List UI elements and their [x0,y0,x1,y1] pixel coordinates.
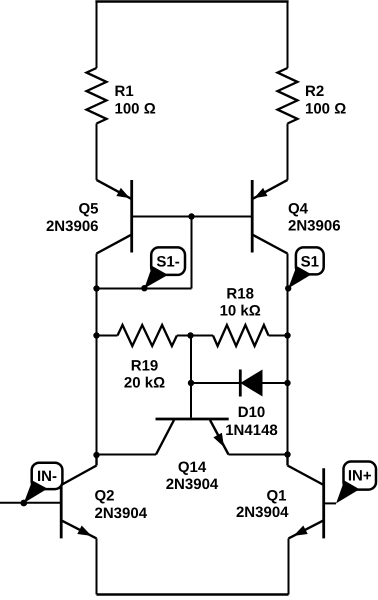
svg-text:S1-: S1- [156,253,179,270]
wire Q14 emitter to right column [229,454,288,456]
wire middle column resistor row to diode row [190,336,192,384]
svg-text:Q1: Q1 [266,487,286,504]
svg-text:2N3906: 2N3906 [46,218,99,235]
junction middle column at diode row [188,380,194,386]
svg-text:R2: R2 [305,83,324,100]
wire R2 top lead [287,1,289,69]
label Q1 [236,487,289,520]
svg-text:S1: S1 [301,253,319,270]
node S1- callout [141,247,185,291]
junction left column at resistor row [93,332,99,338]
junction right column at diode row [284,380,290,386]
label R18 value [220,286,261,320]
junction base node [188,213,194,219]
wire Q4 collector down right column [287,254,289,455]
diode D10 [191,370,288,397]
svg-text:Q5: Q5 [78,201,98,218]
node IN+ callout [336,462,376,504]
svg-text:R19: R19 [131,358,159,375]
junction right column at collector rail [284,451,290,457]
transistor Q2 [61,455,96,538]
junction IN- dot [20,500,27,507]
wire Q1 base stub [324,502,336,504]
wire top rail [95,0,288,3]
wire Q14 collector to left column [97,454,157,456]
svg-text:2N3906: 2N3906 [288,218,341,235]
svg-text:IN+: IN+ [348,468,372,485]
svg-text:IN-: IN- [37,468,57,485]
wire diode row to Q14 base [190,383,192,418]
wire IN- base wire [0,502,61,504]
resistor R19 [97,325,191,346]
svg-text:2N3904: 2N3904 [236,504,289,521]
resistor R18 [191,325,288,346]
label D10 value [225,404,278,439]
wire R2 bottom to Q4 emitter [287,124,289,180]
svg-text:D10: D10 [238,404,266,421]
svg-text:10 kΩ: 10 kΩ [220,302,261,319]
label Q14 [166,459,219,493]
node S1 callout [285,247,324,291]
resistor R2 [278,68,298,124]
transistor Q5 [97,180,132,254]
transistor Q1 [288,455,324,539]
wire Q5 base to Q4 base [132,216,253,218]
svg-text:Q2: Q2 [95,487,115,504]
junction left column at collector rail [93,452,99,458]
wire base node down to S1- row [191,217,193,289]
svg-text:R18: R18 [226,286,254,303]
label Q4 [288,201,341,235]
transistor Q4 [252,180,287,254]
svg-text:Q14: Q14 [178,459,207,476]
label R1 value [115,83,156,118]
svg-text:100 Ω: 100 Ω [305,101,346,118]
wire R1 bottom to Q5 emitter [96,124,98,180]
node IN- callout [24,463,63,503]
wire bottom rail [97,593,289,596]
label Q5 [46,201,99,236]
wire S1- row [97,288,192,290]
wire R1 top lead [96,1,98,69]
svg-text:2N3904: 2N3904 [95,505,148,522]
junction right column at resistor row [284,332,290,338]
svg-text:Q4: Q4 [288,201,309,218]
svg-text:100 Ω: 100 Ω [115,101,156,118]
transistor Q14 [156,419,229,455]
junction middle column at resistor row [187,332,193,338]
wire Q5 collector down left column [96,254,98,456]
label R19 value [124,358,165,392]
wire Q1 emitter to bottom rail [288,538,290,594]
svg-text:1N4148: 1N4148 [225,422,278,439]
wire Q2 emitter to bottom rail [96,538,98,594]
svg-text:20 kΩ: 20 kΩ [124,374,165,391]
resistor R1 [87,68,107,124]
label Q2 [95,487,148,521]
label R2 value [305,83,346,118]
junction left column at S1- row [93,285,99,291]
svg-text:2N3904: 2N3904 [166,476,219,493]
svg-text:R1: R1 [115,83,134,100]
